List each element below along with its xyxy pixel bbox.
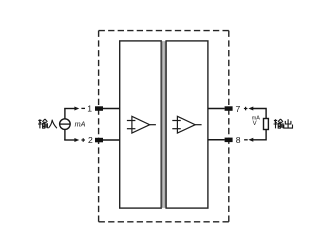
arrow toward terminal 8 (248, 138, 253, 142)
wire load top (253, 109, 266, 119)
output module box (166, 41, 208, 208)
wire terminal 2 to input box (103, 139, 120, 141)
arrow toward terminal 7 (248, 107, 253, 111)
svg-text:7: 7 (236, 104, 241, 114)
isolation barrier (162, 41, 166, 208)
svg-text:mA: mA (75, 119, 86, 128)
pin label 2 (88, 135, 93, 145)
arrow into terminal 2 (74, 138, 79, 142)
terminal block 1 (95, 106, 103, 111)
入 (48, 120, 57, 129)
op-amp U1 (127, 116, 156, 133)
plus sign (terminal 7) (244, 107, 248, 111)
pin label 7 (236, 104, 241, 114)
pin label 1 (87, 104, 92, 114)
terminal block 2 (95, 138, 103, 143)
terminal block 8 (225, 138, 233, 143)
输 (274, 119, 283, 128)
plus sign (terminal 2) (81, 138, 85, 142)
输 (38, 119, 47, 128)
svg-text:2: 2 (88, 135, 93, 145)
svg-text:8: 8 (236, 135, 241, 145)
current source symbol (input, mA) (60, 119, 71, 130)
出 (284, 119, 293, 128)
wire output box to terminal 7 (208, 108, 225, 110)
label mA/V (load) (252, 116, 260, 128)
label mA (source) (75, 119, 86, 128)
dashed enclosure (module outline) (99, 31, 229, 222)
minus sign (terminal 1) (81, 107, 85, 109)
wire source bottom vertical (64, 129, 66, 140)
input module box (120, 41, 162, 208)
arrow into terminal 1 (74, 107, 79, 111)
svg-text:1: 1 (87, 104, 92, 114)
wire source bottom horizontal (64, 139, 75, 141)
wire terminal 1 to input box (103, 108, 120, 110)
text 输出 (output) (274, 119, 293, 128)
wire load bottom (253, 129, 266, 139)
text 输入 (input) (38, 119, 57, 128)
wire source top vertical (64, 109, 66, 119)
svg-text:V: V (253, 121, 257, 127)
terminal block 7 (225, 106, 233, 111)
pin label 8 (236, 135, 241, 145)
minus sign (terminal 8) (244, 139, 248, 141)
load resistor (264, 119, 269, 130)
op-amp U2 (172, 116, 201, 133)
wire source top horizontal (64, 108, 75, 110)
wire output box to terminal 8 (208, 139, 225, 141)
